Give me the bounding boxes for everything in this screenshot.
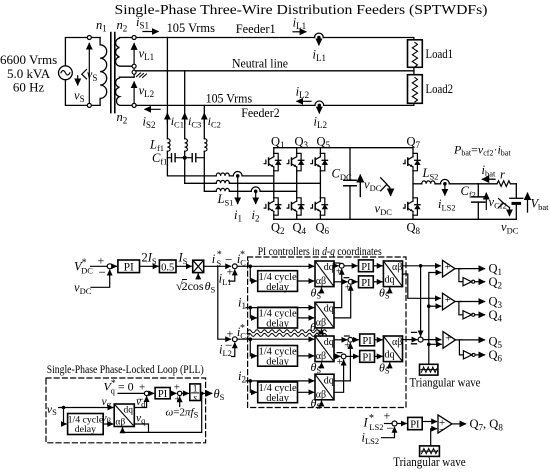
wire mult to sum iC1 bbox=[204, 265, 231, 267]
svg-text:Q8: Q8 bbox=[407, 221, 421, 237]
wire line2 to leg3 bbox=[229, 182, 320, 184]
theta feedback wire bbox=[200, 392, 204, 396]
summing node iC1 bbox=[232, 264, 237, 269]
dq3 out to sumB2 bbox=[334, 355, 340, 357]
wire Vqref to sumP1 bbox=[118, 392, 144, 394]
wire line1 to LS1 bbox=[167, 151, 216, 176]
dq1 out to sumA2 bbox=[334, 281, 347, 283]
svg-text:CDC: CDC bbox=[332, 167, 352, 183]
transistor Q3 bbox=[287, 153, 304, 170]
drop wire neutral bbox=[184, 71, 186, 139]
svg-text:αβ: αβ bbox=[316, 276, 326, 287]
triangular wave box 1 bbox=[420, 364, 438, 375]
summing node P1 bbox=[144, 391, 148, 395]
svg-text:dq: dq bbox=[124, 405, 134, 415]
wavy separator bbox=[248, 330, 327, 333]
svg-text:Load2: Load2 bbox=[426, 82, 454, 96]
theta stub dq3 bbox=[319, 363, 322, 367]
svg-text:105 Vrms: 105 Vrms bbox=[167, 20, 215, 35]
svg-text:iS2: iS2 bbox=[143, 115, 156, 131]
PI5 to comp4 bbox=[422, 421, 436, 423]
svg-text:+: + bbox=[445, 333, 451, 345]
PI2 to ab1 bbox=[373, 281, 382, 283]
svg-text:Cf1: Cf1 bbox=[152, 151, 167, 167]
PI6 to sumP2 bbox=[170, 392, 176, 394]
svg-text:6600 Vrms: 6600 Vrms bbox=[0, 52, 57, 67]
PI controllers dashed box bbox=[248, 257, 406, 408]
svg-text:dq: dq bbox=[385, 350, 395, 361]
inductor LS2 bbox=[422, 181, 435, 184]
svg-text:Q5: Q5 bbox=[317, 135, 331, 151]
multiplier box bbox=[193, 260, 204, 272]
leg3 wire bbox=[319, 148, 321, 220]
ab1 alpha out to comp1 bbox=[403, 265, 441, 267]
svg-text:θS: θS bbox=[379, 361, 390, 376]
iLS2 sensor bump bbox=[441, 179, 450, 183]
svg-text:n2: n2 bbox=[117, 110, 128, 126]
delay out vbeta bbox=[103, 423, 113, 425]
svg-text:θS: θS bbox=[379, 286, 390, 301]
svg-text:Q6: Q6 bbox=[316, 221, 330, 237]
battery Vbat bbox=[515, 184, 517, 220]
delay1 out wire bbox=[298, 280, 314, 282]
triangular wave box 2 bbox=[420, 446, 440, 457]
svg-text:dq: dq bbox=[324, 375, 334, 386]
svg-text:60 Hz: 60 Hz bbox=[13, 80, 45, 95]
svg-text:PI: PI bbox=[410, 420, 420, 431]
svg-text:LS2: LS2 bbox=[422, 166, 439, 182]
svg-text:αβ: αβ bbox=[392, 262, 402, 273]
svg-text:Triangular wave: Triangular wave bbox=[393, 454, 466, 469]
svg-text:S: S bbox=[216, 258, 221, 268]
summing node VDC bbox=[107, 264, 112, 269]
PI3 to ab2 bbox=[375, 339, 383, 341]
delay box 4 bbox=[258, 382, 298, 403]
svg-text:Q4: Q4 bbox=[489, 308, 503, 324]
iL2 flow arrow bbox=[297, 100, 311, 102]
PLL dq block bbox=[114, 404, 134, 427]
svg-text:−: − bbox=[439, 424, 445, 436]
sumB1 to PI3 bbox=[353, 339, 358, 341]
svg-text:i1: i1 bbox=[238, 296, 246, 312]
svg-text:vq: vq bbox=[136, 412, 146, 425]
vL2 arrow bbox=[133, 82, 135, 103]
iC2 arrow bbox=[203, 114, 205, 125]
PI box ch2b bbox=[360, 351, 375, 363]
dq block 3 bbox=[315, 336, 334, 362]
leg4 wire Q7Q8 bbox=[412, 148, 414, 220]
wire PI to 0.5 bbox=[140, 265, 158, 267]
wire line3 to LS1 bbox=[204, 151, 216, 191]
vS short arrow bbox=[77, 76, 79, 85]
svg-text:Q2: Q2 bbox=[271, 221, 285, 237]
svg-text:i: i bbox=[212, 252, 216, 266]
svg-text:I: I bbox=[363, 416, 369, 430]
PI box PLL bbox=[155, 388, 170, 399]
PLL dashed box bbox=[46, 378, 206, 443]
svg-text:Feeder2: Feeder2 bbox=[241, 106, 280, 120]
PLL delay box bbox=[68, 414, 104, 435]
svg-text:Q1: Q1 bbox=[271, 135, 285, 151]
svg-text:vS: vS bbox=[47, 402, 57, 417]
vDC fb wire bbox=[91, 270, 110, 287]
delay box 3 bbox=[258, 346, 298, 367]
i1 wire to dq2 bbox=[246, 307, 314, 309]
svg-text:αβ: αβ bbox=[115, 417, 125, 427]
svg-text:dq: dq bbox=[324, 304, 334, 315]
svg-text:delay: delay bbox=[75, 424, 96, 435]
dq4 feedback to B1 bbox=[334, 344, 350, 381]
svg-text:vL2: vL2 bbox=[139, 84, 155, 100]
svg-text:dq: dq bbox=[324, 262, 334, 273]
Lf1 coil 3 bbox=[204, 139, 207, 152]
node sec mid2 bbox=[132, 70, 136, 74]
svg-text:PI controllers in d-q coordina: PI controllers in d-q coordinates bbox=[258, 246, 382, 258]
comp2 out to Q3 bbox=[455, 301, 485, 303]
wire iC2* to dq3 bbox=[237, 338, 313, 340]
svg-text:Cf2: Cf2 bbox=[461, 184, 476, 200]
vq out wire bbox=[134, 424, 148, 432]
LS1 coil line2 bbox=[216, 180, 229, 183]
vCf2 arrow bbox=[485, 193, 487, 209]
svg-text:delay: delay bbox=[266, 393, 289, 404]
svg-text:iL1: iL1 bbox=[313, 48, 326, 64]
sumP1 to PI6 bbox=[149, 392, 154, 394]
transistor Q6 bbox=[311, 198, 328, 215]
dq block 4 bbox=[315, 374, 334, 400]
iC3 arrow bbox=[184, 114, 186, 125]
svg-text:i2: i2 bbox=[252, 208, 260, 224]
ab2 out to sumC bbox=[403, 339, 417, 341]
transistor Q4 bbox=[287, 198, 304, 215]
i1 sensor bump bbox=[233, 171, 242, 175]
svg-text:Triangular wave: Triangular wave bbox=[410, 375, 481, 390]
summing node P2 bbox=[178, 391, 182, 395]
comp1 out to Q1 bbox=[455, 268, 485, 270]
svg-text:+: + bbox=[345, 282, 351, 293]
dq block 1 bbox=[315, 261, 334, 287]
feeder2 wire bbox=[136, 103, 414, 105]
PI1 to ab1 bbox=[373, 265, 382, 267]
comparator 3 bbox=[443, 332, 456, 349]
iS1 arrow bbox=[143, 31, 158, 33]
theta stub dq2 bbox=[319, 329, 322, 333]
svg-text:i2: i2 bbox=[238, 369, 246, 385]
iS2 arrow bbox=[145, 108, 160, 110]
iL2 input wire ch2 bbox=[232, 343, 235, 357]
omega wire bbox=[179, 397, 181, 407]
vS wire bbox=[59, 407, 113, 409]
sumB2 to PI4 bbox=[346, 355, 358, 357]
svg-text:Pbat=vcf2·ibat: Pbat=vcf2·ibat bbox=[453, 142, 511, 157]
source ratings label bbox=[0, 52, 57, 95]
iL1 input wire bbox=[229, 270, 235, 281]
delay4 out bbox=[298, 391, 314, 393]
iLS2 fb wire bbox=[382, 428, 395, 438]
leg1 wire bbox=[273, 148, 275, 220]
node sec mid1 bbox=[132, 64, 136, 68]
winding n1 primary bbox=[100, 38, 107, 106]
svg-text:vS: vS bbox=[74, 89, 85, 105]
Lf1 coil 2 bbox=[185, 139, 188, 152]
wire to resistor bbox=[478, 183, 497, 185]
mult theta arrow bbox=[197, 274, 199, 279]
dq3 out to sumB1 bbox=[334, 339, 347, 341]
Lf1 coil 1 bbox=[167, 139, 170, 152]
PI4 to ab2 bbox=[375, 355, 383, 357]
PI box ch1b bbox=[359, 276, 374, 288]
dq block 2 bbox=[315, 302, 334, 328]
center tap hatch bbox=[137, 73, 147, 78]
svg-text:−: − bbox=[99, 265, 106, 280]
svg-text:105 Vrms: 105 Vrms bbox=[206, 90, 253, 105]
comparator 4 bbox=[438, 415, 452, 433]
load1 box bbox=[408, 40, 423, 68]
neutral wire bbox=[136, 70, 414, 72]
tri wave bus 2 bbox=[431, 429, 437, 446]
svg-text:Feeder1: Feeder1 bbox=[236, 22, 276, 36]
transistor Q5 bbox=[311, 153, 328, 170]
ab1 beta out to comp2 bbox=[403, 274, 441, 298]
junction dot Cf1 bbox=[183, 156, 187, 160]
comp3 out to Q5 bbox=[456, 339, 485, 341]
theta stub dq1 bbox=[319, 288, 322, 292]
node sec bottom bbox=[132, 103, 136, 107]
svg-text:PI: PI bbox=[362, 352, 372, 363]
iC1 arrow bbox=[166, 114, 168, 125]
svg-text:+: + bbox=[337, 357, 343, 368]
svg-text:0.5: 0.5 bbox=[161, 262, 174, 273]
load2 box bbox=[408, 75, 423, 104]
Cf1 capacitor a bbox=[167, 157, 184, 159]
dq2 feedback to A1 bbox=[334, 270, 342, 308]
svg-text:vDC: vDC bbox=[364, 178, 382, 194]
winding n2 lower bbox=[116, 77, 135, 105]
svg-text:Neutral line: Neutral line bbox=[232, 57, 288, 71]
vd out wire bbox=[134, 397, 146, 408]
svg-text:r: r bbox=[500, 168, 505, 182]
PI box ch2a bbox=[360, 334, 375, 346]
svg-text:Q4: Q4 bbox=[293, 221, 307, 237]
inverter 3 bbox=[459, 340, 462, 355]
iL2 sensor bump bbox=[315, 101, 324, 105]
transistor Q8 bbox=[403, 198, 420, 215]
svg-text:ibat: ibat bbox=[482, 163, 497, 179]
PI box row1 bbox=[118, 260, 140, 273]
theta stub dq4 bbox=[319, 401, 322, 405]
wire iC1* to dq1 bbox=[237, 265, 313, 267]
svg-text:vDC: vDC bbox=[375, 202, 393, 218]
Cf1 capacitor b bbox=[185, 157, 205, 159]
svg-text:PI: PI bbox=[361, 278, 371, 289]
svg-text:PI: PI bbox=[361, 262, 371, 273]
svg-text:vDC: vDC bbox=[501, 220, 519, 236]
feeder1 wire bbox=[136, 38, 414, 40]
svg-text:iC3: iC3 bbox=[188, 114, 201, 130]
vL1 arrow bbox=[133, 44, 135, 64]
svg-text:Vbat: Vbat bbox=[531, 197, 550, 213]
svg-text:Q3: Q3 bbox=[295, 135, 309, 151]
svg-text:vd: vd bbox=[136, 396, 146, 409]
ab block 2 bbox=[383, 336, 402, 362]
theta stub ab2 bbox=[387, 363, 390, 367]
svg-text:LS2: LS2 bbox=[369, 422, 383, 432]
iL1 flow arrow bbox=[293, 31, 306, 33]
svg-text:Q2: Q2 bbox=[489, 275, 503, 291]
dq4 feedback to B2 bbox=[334, 360, 344, 392]
svg-text:ω=2πfS: ω=2πfS bbox=[166, 407, 199, 420]
svg-text:θS: θS bbox=[311, 286, 322, 301]
iL1 sensor bump bbox=[315, 33, 324, 37]
vDC angle arrow bottom bbox=[504, 204, 510, 208]
wire ILS2* to sum bbox=[385, 423, 393, 425]
AC source vS bbox=[59, 66, 73, 80]
wire line3 to leg2 bbox=[229, 190, 296, 192]
svg-text:Q7: Q7 bbox=[407, 135, 421, 151]
wire 0.5 to mult bbox=[176, 265, 191, 267]
svg-text:vS: vS bbox=[87, 68, 98, 84]
load1 bottom wire bbox=[413, 67, 415, 71]
branch down to sumC bbox=[420, 266, 422, 336]
svg-text:+: + bbox=[336, 267, 342, 278]
wire resistor to battery bbox=[510, 183, 516, 185]
svg-text:IS: IS bbox=[178, 251, 188, 267]
svg-text:PI: PI bbox=[124, 262, 134, 274]
svg-text:iLS2: iLS2 bbox=[438, 197, 456, 213]
delay2 out bbox=[298, 317, 314, 319]
sumC to comp3 bbox=[423, 339, 441, 341]
svg-text:2IS: 2IS bbox=[142, 251, 157, 267]
iS* branch down to ch2 bbox=[218, 266, 231, 339]
PI box LS2 bbox=[408, 417, 423, 429]
drop wire feeder2 bbox=[203, 105, 205, 138]
transformer core bbox=[111, 33, 115, 113]
dq1 out to sumA1 bbox=[334, 265, 338, 267]
svg-text:Q7, Q8: Q7, Q8 bbox=[470, 417, 504, 433]
svg-text:n2: n2 bbox=[117, 18, 128, 34]
svg-text:vDC: vDC bbox=[74, 281, 92, 297]
svg-text:vL1: vL1 bbox=[139, 47, 155, 63]
svg-text:PI: PI bbox=[158, 389, 168, 400]
svg-text:iL2: iL2 bbox=[296, 85, 309, 101]
svg-text:PI: PI bbox=[362, 336, 372, 347]
LS1 coil line1 bbox=[216, 173, 229, 176]
secondary center link bbox=[133, 66, 135, 77]
node top primary bbox=[87, 36, 91, 40]
svg-text:iC2: iC2 bbox=[208, 114, 221, 130]
sum to PI5 bbox=[397, 423, 406, 425]
transistor Q1 bbox=[264, 153, 281, 170]
leg2 wire bbox=[296, 148, 298, 220]
svg-text:αβ: αβ bbox=[316, 389, 326, 400]
svg-text:delay: delay bbox=[266, 282, 289, 293]
load2 top wire bbox=[413, 71, 415, 75]
dc bus top rail bbox=[274, 147, 413, 149]
svg-text:Load1: Load1 bbox=[426, 47, 454, 61]
vDC angle arrow bbox=[381, 178, 387, 191]
svg-text:+: + bbox=[344, 341, 350, 352]
svg-text:n1: n1 bbox=[96, 18, 107, 34]
svg-text:αβ: αβ bbox=[392, 337, 402, 348]
0.5 box bbox=[159, 260, 176, 273]
svg-text:iLS2: iLS2 bbox=[362, 431, 380, 447]
svg-text:s: s bbox=[193, 393, 197, 403]
svg-text:Single-Phase Three-Wire Distri: Single-Phase Three-Wire Distribution Fee… bbox=[115, 3, 488, 18]
delay box 1 bbox=[258, 271, 298, 292]
wire LS2 to bump bbox=[435, 183, 478, 185]
capacitor CDC bbox=[349, 148, 351, 220]
svg-text:delay: delay bbox=[266, 357, 289, 368]
svg-text:+: + bbox=[445, 261, 451, 273]
transistor Q2 bbox=[264, 198, 281, 215]
svg-text:+: + bbox=[445, 294, 451, 306]
svg-text:iL2: iL2 bbox=[314, 115, 327, 131]
svg-text:iC1: iC1 bbox=[171, 114, 184, 130]
svg-text:√2cosθS: √2cosθS bbox=[176, 279, 216, 295]
inverter 2 bbox=[459, 302, 462, 315]
Vbat arrow bbox=[527, 193, 529, 212]
vDC arrow up bbox=[359, 175, 361, 196]
node sec top bbox=[132, 36, 136, 40]
drop wire feeder1 bbox=[166, 38, 168, 139]
summing node C bbox=[418, 337, 423, 342]
dq2 feedback to A2 bbox=[334, 286, 351, 318]
delay box 2 bbox=[258, 307, 298, 328]
transistor Q7 bbox=[403, 153, 420, 170]
sumA2 to PI2 bbox=[353, 281, 357, 283]
wire sum to PI bbox=[112, 265, 116, 267]
inverter 1 bbox=[459, 269, 462, 282]
summing node iC2 bbox=[232, 337, 237, 342]
i2 sensor bump bbox=[251, 187, 260, 191]
sumA1 to PI1 bbox=[344, 265, 357, 267]
resistor r bbox=[497, 181, 510, 187]
capacitor Cf2 bbox=[477, 184, 479, 220]
svg-text:dq: dq bbox=[324, 337, 334, 348]
LS1 coil line3 bbox=[216, 188, 229, 191]
i2 wire to dq4 bbox=[246, 380, 314, 382]
svg-text:dq: dq bbox=[385, 275, 395, 286]
wire line2 to LS1 bbox=[185, 151, 217, 183]
comp4 out bbox=[452, 423, 466, 425]
svg-text:vβ: vβ bbox=[102, 412, 111, 425]
integrator box bbox=[190, 384, 201, 401]
svg-text:LS1: LS1 bbox=[217, 192, 234, 208]
wire VDCref to sum bbox=[91, 265, 108, 267]
PI box ch1a bbox=[359, 260, 374, 272]
sumP2 to 1/s bbox=[182, 392, 188, 394]
theta stub ab1 bbox=[387, 288, 390, 292]
vS long arrow bbox=[88, 44, 90, 104]
comparator 2 bbox=[443, 293, 456, 310]
thetaS out bbox=[201, 392, 212, 394]
ibat arrow bbox=[483, 178, 496, 180]
node bottom primary bbox=[87, 103, 91, 107]
LS2 wire bbox=[413, 183, 422, 185]
svg-text:αβ: αβ bbox=[316, 351, 326, 362]
winding n2 upper bbox=[116, 38, 135, 67]
summing node LS2 bbox=[392, 421, 397, 426]
wire primary loop bbox=[65, 38, 100, 106]
triangular wave bus bbox=[429, 273, 441, 365]
svg-text:vα: vα bbox=[102, 396, 112, 409]
ab block 1 bbox=[383, 261, 402, 287]
delay3 out bbox=[298, 355, 314, 357]
svg-text:delay: delay bbox=[266, 319, 289, 330]
comparator 1 bbox=[443, 260, 456, 277]
wire line1 to leg1 bbox=[229, 175, 273, 177]
svg-text:i1: i1 bbox=[234, 208, 242, 224]
